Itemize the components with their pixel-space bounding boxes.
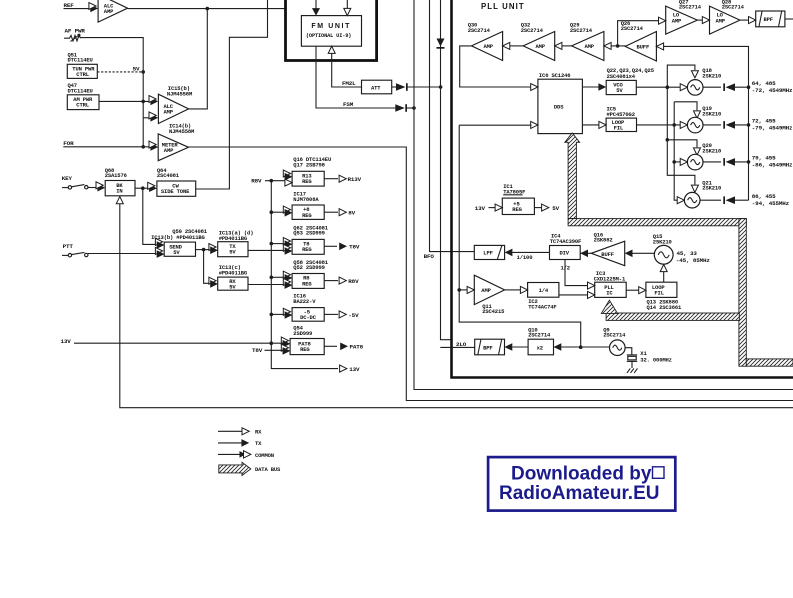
wire V2 to Q20 left: [674, 161, 681, 163]
wire METER out long: [189, 147, 793, 401]
svg-text:AMP: AMP: [672, 18, 682, 25]
svg-text:2SA1576: 2SA1576: [105, 172, 127, 179]
svg-text:2LO: 2LO: [456, 341, 467, 348]
svg-text:1/100: 1/100: [517, 254, 533, 261]
wire BK IN down to bottom rail: [120, 204, 793, 408]
svg-text:5V: 5V: [133, 65, 140, 72]
svg-text:64, 485: 64, 485: [752, 80, 776, 87]
svg-text:5V: 5V: [616, 87, 623, 94]
svg-text:BUFF: BUFF: [601, 251, 614, 258]
svg-text:ATT: ATT: [371, 84, 381, 91]
wire lower input: [143, 117, 150, 119]
svg-text:AMP: AMP: [536, 43, 546, 50]
oscillator Q20: [680, 158, 687, 165]
svg-text:2SC2714: 2SC2714: [570, 27, 593, 34]
wire RX out: [248, 284, 285, 286]
svg-text:x2: x2: [537, 344, 543, 351]
svg-text:2SK882: 2SK882: [594, 236, 613, 243]
svg-text:IN: IN: [116, 188, 122, 195]
wire vertical BFO: [430, 0, 475, 252]
svg-text:2SC2714: 2SC2714: [603, 332, 626, 339]
svg-text:2SK210: 2SK210: [702, 147, 721, 154]
svg-text:PTT: PTT: [63, 243, 74, 250]
ground: [627, 368, 638, 373]
svg-text:#PC4570G2: #PC4570G2: [607, 111, 635, 118]
svg-text:RX: RX: [255, 429, 262, 436]
svg-text:-5V: -5V: [348, 312, 359, 319]
svg-text:#PD4011BG: #PD4011BG: [219, 270, 248, 277]
svg-text:Q14 2SC3661: Q14 2SC3661: [647, 304, 683, 311]
wire V1 to Q20 top: [667, 140, 697, 147]
svg-text:CTRL: CTRL: [76, 71, 89, 78]
resistor variable: [64, 35, 81, 41]
svg-text:R8V: R8V: [251, 177, 262, 184]
svg-text:-72, 4549MHz: -72, 4549MHz: [752, 87, 793, 94]
wire BK out: [135, 187, 150, 189]
svg-text:2SC4215: 2SC4215: [482, 308, 505, 315]
attenuator ATT: [362, 80, 392, 94]
svg-text:AMP: AMP: [484, 43, 494, 50]
legend TX: [218, 442, 242, 444]
svg-text:TC74AC74F: TC74AC74F: [528, 303, 556, 310]
svg-text:IC6 SC1246: IC6 SC1246: [539, 72, 571, 79]
svg-text:Q17 2SB798: Q17 2SB798: [293, 161, 325, 168]
wire SEND out: [196, 249, 212, 251]
svg-text:DTC114EU: DTC114EU: [68, 57, 93, 64]
svg-text:R13V: R13V: [348, 176, 362, 183]
svg-text:#PD4011BG: #PD4011BG: [219, 235, 248, 242]
svg-text:BFO: BFO: [424, 253, 435, 260]
svg-text:T8V: T8V: [252, 347, 263, 354]
svg-text:DTC114EU: DTC114EU: [68, 87, 93, 94]
svg-text:8V: 8V: [348, 210, 355, 217]
svg-text:2SC2714: 2SC2714: [722, 4, 745, 11]
svg-text:-79, 4549MHz: -79, 4549MHz: [752, 125, 793, 132]
svg-text:2SK210: 2SK210: [702, 72, 721, 79]
FM UNIT inner box: [301, 16, 361, 47]
svg-text:DDS: DDS: [554, 104, 564, 111]
svg-text:TX: TX: [255, 440, 262, 447]
oscillator Q19: [680, 121, 687, 128]
svg-text:2SC4081x4: 2SC4081x4: [607, 73, 636, 80]
wire DDS out2 to LOOP FIL: [582, 124, 599, 126]
svg-text:FM UNIT: FM UNIT: [311, 23, 351, 30]
wire vertical 2LO: [441, 0, 452, 340]
svg-text:REG: REG: [300, 346, 310, 353]
filter BPF (2LO): [475, 339, 505, 355]
svg-text:RadioAmateur.EU: RadioAmateur.EU: [499, 483, 659, 504]
svg-text:BPF: BPF: [483, 344, 492, 351]
wire Q15 bottom from loop fil: [660, 264, 667, 271]
svg-text:REG: REG: [512, 206, 522, 213]
wire VCO out: [636, 86, 681, 88]
svg-text:2SC2714: 2SC2714: [528, 332, 551, 339]
svg-text:AMP: AMP: [104, 8, 114, 15]
wire V2 vertical: [674, 102, 681, 200]
op-amp ALC AMP (top): [98, 0, 128, 22]
wire CW out up and over: [196, 0, 268, 189]
svg-text:-45, 85MHz: -45, 85MHz: [676, 257, 710, 264]
wire ALC out to FM unit: [128, 8, 286, 10]
svg-text:2SK210: 2SK210: [702, 185, 721, 192]
svg-text:FSM: FSM: [343, 101, 354, 108]
wire vertical FSM bus: [414, 0, 793, 390]
wire BUFF input from right vertical: [664, 46, 749, 200]
wire: [64, 8, 92, 10]
filter BPF top: [756, 11, 785, 27]
svg-text:FM2L: FM2L: [342, 80, 356, 87]
svg-text:CTRL: CTRL: [76, 102, 89, 109]
svg-text:79, 455: 79, 455: [752, 155, 776, 162]
svg-text:R8V: R8V: [348, 278, 359, 285]
svg-text:13V: 13V: [61, 338, 72, 345]
svg-text:LPF: LPF: [483, 250, 492, 257]
svg-text:REG: REG: [302, 212, 312, 219]
svg-text:CXD1225M-1: CXD1225M-1: [594, 275, 626, 282]
svg-text:Q53 2SD999: Q53 2SD999: [293, 230, 325, 237]
wire 13V distribution vertical: [271, 181, 338, 369]
svg-text:5V: 5V: [229, 249, 236, 256]
svg-text:REG: REG: [302, 178, 312, 185]
svg-text:COMMON: COMMON: [255, 452, 274, 459]
svg-text:(OPTIONAL UI-9): (OPTIONAL UI-9): [306, 33, 351, 39]
wire DDS out1 to VCO: [582, 86, 599, 88]
svg-text:AMP: AMP: [716, 18, 726, 25]
svg-text:2SC2714: 2SC2714: [521, 27, 544, 34]
wire 32MHz distribution: [459, 124, 531, 126]
watermark box: [488, 457, 675, 511]
wire PAT8 out: [324, 345, 337, 347]
wire BK dot down to SEND: [143, 188, 158, 244]
data bus main horizontal: [568, 219, 746, 226]
wire LOOP FIL out: [637, 124, 682, 126]
svg-text:NJM7808A: NJM7808A: [293, 196, 319, 203]
crystal X1: [625, 348, 632, 355]
filter LOOP FIL (Q13/Q14): [646, 282, 677, 297]
svg-text:AMP: AMP: [481, 287, 491, 294]
svg-text:AMP: AMP: [164, 147, 174, 154]
svg-text:BPF: BPF: [764, 16, 773, 23]
wire up into FM unit bottom: [328, 46, 335, 53]
svg-text:NJM4558M: NJM4558M: [169, 128, 195, 135]
wire into FM unit 1: [315, 0, 317, 9]
transistor Q11 amp: [474, 275, 504, 304]
svg-text:Q52 2SD999: Q52 2SD999: [293, 264, 325, 271]
wire into FM unit 2: [346, 0, 348, 9]
node junction: [206, 7, 210, 11]
wire AF PWR to vertical: [81, 38, 144, 147]
PLL UNIT border: [452, 0, 793, 378]
svg-text:KEY: KEY: [62, 175, 73, 182]
svg-text:AF PWR: AF PWR: [65, 28, 86, 35]
svg-text:FOR: FOR: [63, 140, 74, 147]
svg-text:5V: 5V: [229, 284, 236, 291]
filter LPF: [474, 245, 504, 259]
wire AM PWR out: [99, 100, 151, 102]
legend COMMON: [218, 453, 240, 455]
wire TX out: [248, 249, 285, 251]
svg-text:REG: REG: [302, 280, 312, 287]
svg-text:DC-DC: DC-DC: [300, 314, 317, 321]
svg-text:FIL: FIL: [654, 289, 664, 296]
wire V1 vertical down: [667, 87, 695, 184]
svg-text:5V: 5V: [552, 205, 559, 212]
svg-text:AMP: AMP: [585, 43, 595, 50]
svg-text:SIDE TONE: SIDE TONE: [161, 188, 190, 195]
svg-text:Downloaded by: Downloaded by: [511, 464, 652, 485]
svg-text:72, 455: 72, 455: [752, 118, 776, 125]
data bus branch to PLL IC: [606, 313, 739, 320]
data bus vertical right: [739, 219, 746, 367]
svg-text:45, 33: 45, 33: [677, 250, 698, 257]
svg-text:REG: REG: [302, 246, 312, 253]
wire IC15b feedback vertical: [189, 9, 208, 109]
svg-text:2SC2714: 2SC2714: [679, 4, 702, 11]
wire Q30 out to DDS: [460, 46, 532, 87]
svg-text:32. 000MHz: 32. 000MHz: [640, 356, 672, 363]
FM UNIT outer box: [286, 0, 377, 61]
svg-text:-94, 455MHz: -94, 455MHz: [752, 200, 790, 207]
svg-text:-86, 4549MHz: -86, 4549MHz: [752, 162, 793, 169]
svg-text:2SK210: 2SK210: [702, 110, 721, 117]
legend RX: [218, 430, 242, 432]
diode on 2LO vertical: [437, 39, 445, 49]
node FSM: [316, 46, 398, 108]
svg-text:IC: IC: [606, 289, 613, 296]
wire PTT to SEND: [88, 253, 158, 255]
oscillator Q21: [677, 197, 684, 204]
svg-text:PAT8: PAT8: [350, 344, 364, 351]
filled arrow into ALC amp: [90, 5, 98, 13]
svg-text:86, 455: 86, 455: [752, 193, 776, 200]
svg-text:13V: 13V: [349, 366, 360, 373]
oscillator Q18: [680, 84, 687, 91]
svg-text:FIL: FIL: [614, 125, 624, 132]
wire dashed 5V: [97, 71, 143, 73]
wire ATT out with diode arrow: [392, 86, 399, 88]
svg-text:DATA BUS: DATA BUS: [255, 466, 281, 473]
svg-text:PLL UNIT: PLL UNIT: [481, 2, 525, 11]
svg-text:1/4: 1/4: [539, 287, 549, 294]
svg-text:5V: 5V: [173, 249, 180, 256]
svg-text:2SC4081: 2SC4081: [157, 172, 180, 179]
switch: [62, 187, 68, 189]
svg-text:BA222-V: BA222-V: [293, 298, 316, 305]
svg-text:AMP: AMP: [164, 109, 174, 116]
svg-text:NJM4558M: NJM4558M: [167, 90, 193, 97]
ground arrow up into BK IN: [116, 197, 123, 204]
svg-text:25K210: 25K210: [653, 238, 672, 245]
svg-text:BUFF: BUFF: [637, 43, 650, 50]
svg-text:2SC2714: 2SC2714: [468, 27, 491, 34]
svg-text:TC74AC390F: TC74AC390F: [550, 238, 582, 245]
data bus into DDS: [565, 133, 580, 219]
svg-text:13V: 13V: [475, 205, 486, 212]
data bus bottom to edge: [746, 359, 793, 366]
wire DIV down to PLL IC: [565, 260, 588, 286]
svg-text:T8V: T8V: [349, 244, 360, 251]
legend DATA BUS: [219, 462, 251, 475]
IC U2 1/4: [528, 283, 559, 298]
wire SEND down to RX: [204, 250, 211, 284]
wire LO branch: [618, 21, 660, 46]
wire VCO to Q18 top: [667, 65, 695, 87]
wire V2 to Q19 top: [674, 102, 697, 110]
wire 13V out: [340, 365, 347, 372]
svg-text:2SC2714: 2SC2714: [621, 25, 644, 32]
svg-text:2SD999: 2SD999: [293, 330, 312, 337]
svg-text:DIV: DIV: [560, 250, 570, 257]
